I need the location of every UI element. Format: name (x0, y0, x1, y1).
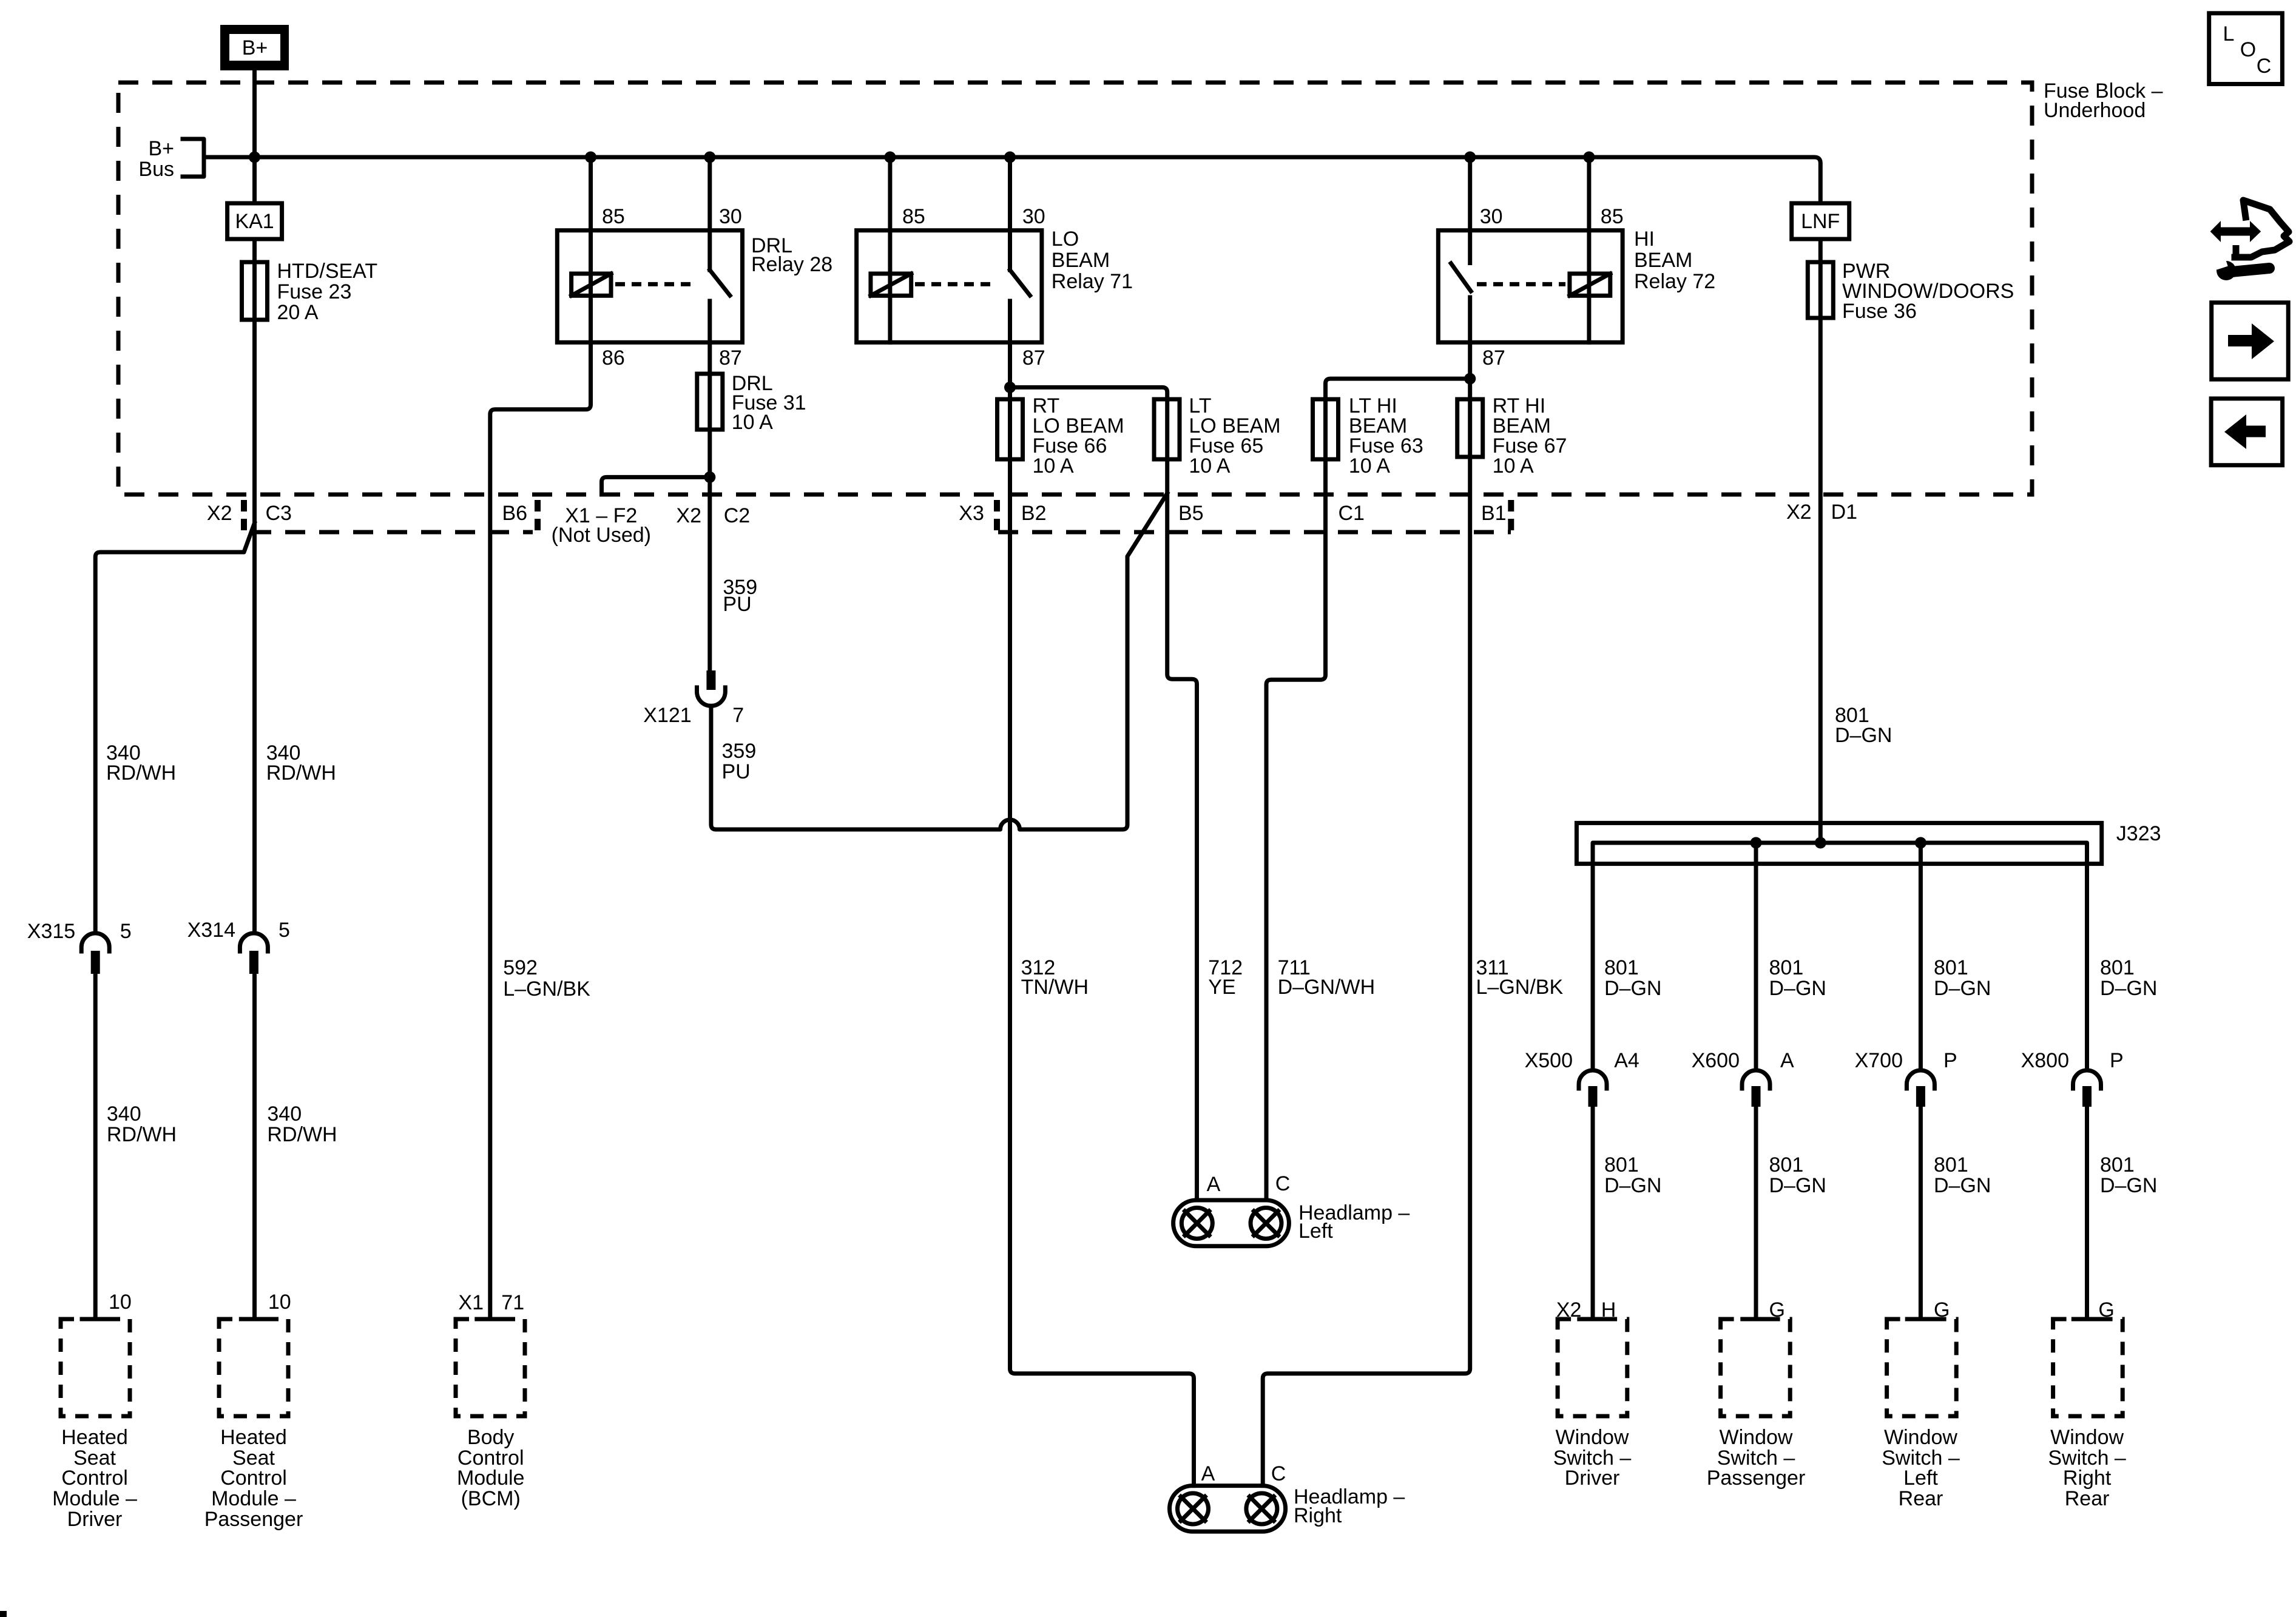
node relay72 output junction (1464, 373, 1476, 385)
label X2 D1 (1786, 501, 1857, 524)
svg-text:KA1: KA1 (235, 210, 274, 233)
label B5 (1178, 502, 1204, 525)
svg-text:B1: B1 (1481, 502, 1507, 525)
label fuse 67 (1493, 394, 1567, 478)
relay 71 LO BEAM box (857, 231, 1042, 343)
svg-text:Driver: Driver (1565, 1467, 1620, 1490)
svg-text:O: O (2240, 38, 2256, 61)
svg-text:RD/WH: RD/WH (107, 1123, 177, 1146)
wire B+ terminal to KA1 (252, 70, 257, 203)
relay 28 DRL box (557, 231, 742, 343)
svg-text:RD/WH: RD/WH (106, 761, 176, 785)
splice pack J323 inner bus (1593, 843, 2087, 864)
svg-text:X121: X121 (643, 704, 691, 727)
label window switch right rear (2048, 1426, 2126, 1510)
connector row dashed line segment A (251, 530, 533, 535)
wire branch to fuse 63 and headlamp left C (1266, 379, 1470, 1200)
label fuse 63 (1349, 394, 1423, 478)
label 359 PU lower (722, 740, 757, 783)
icon LOC box (2209, 13, 2283, 84)
svg-text:Control: Control (61, 1467, 128, 1490)
svg-text:D–GN: D–GN (1604, 977, 1661, 1000)
svg-text:C: C (1271, 1462, 1286, 1485)
module box heated seat passenger (219, 1319, 288, 1416)
label C1 (1339, 502, 1365, 525)
label fuse 66 (1033, 394, 1124, 478)
relay 28 pin 85 wire (585, 152, 596, 343)
svg-text:D–GN: D–GN (1769, 1174, 1826, 1197)
relay 72 pin 85 wire (1583, 152, 1595, 343)
svg-text:BEAM: BEAM (1052, 249, 1110, 272)
wire J323 to X800 (2085, 864, 2089, 1070)
svg-text:801: 801 (1934, 1153, 1968, 1176)
svg-text:PU: PU (722, 760, 751, 783)
svg-text:L–GN/BK: L–GN/BK (503, 977, 590, 1001)
wire J323 to X700 (1919, 843, 1923, 1070)
svg-text:B6: B6 (502, 502, 528, 525)
svg-text:Window: Window (1884, 1426, 1957, 1449)
svg-text:X2: X2 (207, 502, 232, 525)
svg-text:X315: X315 (27, 920, 75, 943)
svg-text:Right: Right (2063, 1467, 2112, 1490)
label 312 TN/WH (1021, 956, 1089, 999)
svg-text:RD/WH: RD/WH (266, 761, 336, 785)
svg-text:71: 71 (501, 1291, 524, 1314)
connector tick B1 (1508, 500, 1514, 533)
svg-text:Passenger: Passenger (1707, 1467, 1806, 1490)
module box window switch passenger (1721, 1319, 1791, 1416)
label B+ Bus (138, 137, 174, 181)
svg-text:801: 801 (2100, 956, 2135, 979)
label X2 C3 (207, 502, 292, 525)
headlamp right body (1170, 1486, 1286, 1532)
headlamp right high beam bulb (1246, 1493, 1277, 1524)
label fuse 65 (1189, 394, 1280, 478)
fuse 23 HTD/SEAT (242, 262, 268, 320)
svg-text:X1: X1 (458, 1291, 484, 1314)
svg-text:J323: J323 (2116, 822, 2161, 845)
svg-text:X2: X2 (676, 504, 701, 527)
connector tick X3 (994, 500, 1000, 533)
node relay71 output junction (1004, 382, 1016, 393)
svg-text:A: A (1780, 1049, 1794, 1072)
svg-text:801: 801 (1934, 956, 1968, 979)
pin label X1 71 (458, 1291, 524, 1314)
svg-text:801: 801 (1604, 956, 1639, 979)
svg-text:Rear: Rear (1899, 1487, 1943, 1510)
relay 28 pin labels (602, 205, 742, 370)
relay 72 coil (1570, 274, 1610, 295)
svg-text:30: 30 (1022, 205, 1045, 228)
label 801 D-GN upper 1 (1604, 956, 1661, 1000)
svg-text:Left: Left (1298, 1220, 1333, 1243)
headlamp left high beam bulb (1251, 1208, 1281, 1239)
svg-text:(BCM): (BCM) (461, 1487, 521, 1510)
relay 72 pin 30 wire and switch (1451, 152, 1476, 343)
svg-text:Underhood: Underhood (2044, 99, 2146, 122)
svg-text:X800: X800 (2021, 1049, 2069, 1072)
fuse 65 LT LO BEAM (1154, 399, 1180, 459)
svg-text:592: 592 (503, 956, 538, 979)
wire C3 branch to driver seat column (95, 523, 254, 933)
label X315 5 (27, 920, 132, 943)
relay 71 coil-switch dashed link (915, 282, 997, 286)
fuse block - underhood dashed outline (118, 83, 2032, 495)
wire J323 to X600 (1754, 843, 1758, 1070)
svg-text:85: 85 (602, 205, 625, 228)
svg-text:7: 7 (732, 704, 744, 727)
svg-text:87: 87 (719, 346, 742, 370)
relay 72 HI BEAM box (1438, 231, 1622, 343)
svg-text:B+: B+ (242, 36, 268, 59)
svg-text:801: 801 (2100, 1153, 2135, 1176)
svg-text:C2: C2 (724, 504, 750, 527)
svg-text:340: 340 (107, 1102, 141, 1126)
wire branch to X1-F2 (602, 477, 710, 495)
connector X700 (1906, 1070, 1934, 1107)
label 801 D-GN upper 2 (1769, 956, 1826, 1000)
label fuse 31 (732, 372, 806, 434)
icon arrow box left (2211, 399, 2283, 465)
label X2 C2 (676, 504, 750, 527)
svg-text:RD/WH: RD/WH (267, 1123, 337, 1146)
svg-text:D–GN: D–GN (1769, 977, 1826, 1000)
connector X121 (697, 670, 726, 706)
svg-text:A4: A4 (1614, 1049, 1639, 1072)
svg-text:359: 359 (722, 740, 757, 763)
svg-text:Module: Module (457, 1467, 525, 1490)
wire relay 28 pin 87 to fuse 31 and X121 (707, 342, 712, 672)
relay 71 pin 85 wire (884, 152, 896, 343)
label 801 D-GN branch 1 (1604, 1153, 1661, 1197)
label Headlamp - Right (1294, 1485, 1405, 1527)
fuse 63 LT HI BEAM (1313, 399, 1339, 459)
svg-text:X3: X3 (959, 502, 984, 525)
wire branch to fuse 65 and headlamp left A (1010, 387, 1197, 1200)
pin label 10 passenger (268, 1291, 291, 1314)
label 311 L-GN/BK (1476, 956, 1564, 999)
relay 28 coil-switch dashed link (615, 282, 697, 286)
connector X315 (81, 933, 109, 974)
svg-text:801: 801 (1604, 1153, 1639, 1176)
node fuse31 output junction (704, 471, 715, 483)
svg-text:Module –: Module – (52, 1487, 137, 1510)
svg-text:P: P (1943, 1049, 1957, 1072)
label 340 RD/WH driver lower (107, 1102, 177, 1146)
pin label G passenger (1769, 1298, 1785, 1322)
label fuse 36 (1842, 260, 2014, 323)
svg-text:Rear: Rear (2065, 1487, 2110, 1510)
svg-text:10 A: 10 A (1493, 454, 1534, 478)
label X600 A (1692, 1049, 1794, 1072)
svg-text:B5: B5 (1178, 502, 1204, 525)
svg-text:HI: HI (1634, 228, 1655, 251)
fuse 67 RT HI BEAM (1457, 399, 1483, 457)
relay 71 coil (871, 274, 911, 295)
headlamp right low beam bulb (1178, 1493, 1209, 1524)
pin label G left rear (1934, 1298, 1950, 1322)
node J323 taps (1751, 837, 1926, 849)
connector KA1 (228, 203, 282, 239)
label 340 RD/WH driver upper (106, 741, 176, 785)
label DRL Relay 28 (751, 234, 832, 276)
wire J323 to X500 (1591, 864, 1595, 1070)
svg-text:801: 801 (1769, 956, 1804, 979)
fuse 36 PWR WINDOW/DOORS (1808, 262, 1833, 318)
svg-text:Fuse 23: Fuse 23 (277, 280, 352, 303)
label 712 YE (1208, 956, 1243, 999)
label X700 P (1855, 1049, 1957, 1072)
relay 71 pin 30 wire and switch (1004, 152, 1030, 343)
wire LNF to fuse 36 and down to J323 (1818, 239, 1823, 843)
svg-text:HTD/SEAT: HTD/SEAT (277, 260, 378, 283)
page corner mark (0, 1611, 7, 1617)
connector X314 (240, 933, 268, 974)
svg-text:30: 30 (1480, 205, 1503, 228)
svg-text:30: 30 (719, 205, 742, 228)
label 340 RD/WH passenger upper (266, 741, 336, 785)
relay 71 pin labels (902, 205, 1045, 370)
svg-text:X500: X500 (1525, 1049, 1573, 1072)
svg-text:Module –: Module – (211, 1487, 296, 1510)
headlamp left low beam bulb (1181, 1208, 1212, 1239)
pin label X2 H (1556, 1298, 1616, 1322)
B+ bus bracket (183, 139, 204, 177)
svg-text:D–GN: D–GN (1835, 724, 1892, 747)
svg-text:B+: B+ (148, 137, 174, 160)
connector tick X2/C3 (241, 500, 247, 533)
svg-text:X600: X600 (1692, 1049, 1740, 1072)
label window switch driver (1553, 1426, 1632, 1490)
svg-text:Right: Right (1294, 1504, 1342, 1527)
svg-text:Bus: Bus (138, 158, 174, 181)
label body control module (457, 1426, 525, 1510)
svg-text:340: 340 (267, 1102, 302, 1126)
svg-text:D–GN: D–GN (2100, 977, 2157, 1000)
svg-text:(Not Used): (Not Used) (552, 524, 651, 547)
fuse 31 DRL (697, 374, 723, 430)
svg-text:Heated: Heated (220, 1426, 287, 1449)
icon wrench (2215, 258, 2269, 280)
svg-text:87: 87 (1022, 346, 1045, 370)
svg-text:Passenger: Passenger (204, 1508, 303, 1531)
svg-text:A: A (1207, 1173, 1221, 1196)
svg-text:Driver: Driver (67, 1508, 123, 1531)
svg-text:D–GN: D–GN (2100, 1174, 2157, 1197)
svg-text:Relay 72: Relay 72 (1634, 270, 1715, 293)
svg-text:PU: PU (723, 593, 751, 616)
svg-text:Body: Body (467, 1426, 515, 1449)
module box heated seat driver (61, 1319, 130, 1416)
label HI BEAM Relay 72 (1634, 228, 1715, 293)
label 801 D-GN upper 3 (1934, 956, 1991, 1000)
connector X500 (1579, 1070, 1607, 1107)
label X121 7 (643, 704, 744, 727)
svg-text:L–GN/BK: L–GN/BK (1476, 976, 1564, 999)
icon adjust hand double arrow (2210, 221, 2261, 242)
wire B+ bus (204, 157, 1820, 203)
wire relay 72 pin 87 down to fuse 67 and to headlamp right C (1263, 342, 1470, 1485)
svg-text:Heated: Heated (61, 1426, 128, 1449)
connector X600 (1742, 1070, 1770, 1107)
svg-text:D–GN: D–GN (1934, 977, 1991, 1000)
label X3 B2 (959, 502, 1046, 525)
connector row dashed line segment B (998, 530, 1511, 535)
label window switch left rear (1882, 1426, 1960, 1510)
relay 72 coil-switch dashed link (1477, 282, 1565, 286)
wire relay 28 pin 86 to B6/BCM (490, 342, 591, 1319)
label 801 D-GN upper 4 (2100, 956, 2157, 1000)
module box BCM (456, 1319, 525, 1416)
B+ power terminal (220, 25, 289, 70)
svg-text:Control: Control (220, 1467, 287, 1490)
wire X315 to heated seat driver (93, 974, 98, 1319)
label heated seat control module driver (52, 1426, 137, 1531)
svg-text:87: 87 (1482, 346, 1505, 370)
svg-text:Window: Window (1720, 1426, 1793, 1449)
pin label 10 driver (109, 1291, 132, 1314)
headlamp left pin labels (1207, 1172, 1291, 1196)
svg-text:P: P (2110, 1049, 2124, 1072)
label X500 A4 (1525, 1049, 1639, 1072)
module box window switch driver (1558, 1319, 1627, 1416)
label 801 D-GN branch 3 (1934, 1153, 1991, 1197)
svg-text:10 A: 10 A (1033, 454, 1074, 478)
svg-text:C: C (2257, 55, 2272, 78)
svg-text:D–GN: D–GN (1934, 1174, 1991, 1197)
label Headlamp - Left (1298, 1201, 1410, 1243)
wire relay 71 pin 87 down to fuse 66 and to headlamp right A (1010, 342, 1194, 1485)
svg-text:C3: C3 (266, 502, 292, 525)
svg-text:Relay 71: Relay 71 (1052, 270, 1133, 293)
svg-text:X314: X314 (187, 919, 235, 942)
label 801 D-GN branch 4 (2100, 1153, 2157, 1197)
svg-text:L: L (2223, 22, 2235, 46)
label J323 (2116, 822, 2161, 845)
svg-text:C1: C1 (1339, 502, 1365, 525)
svg-text:X2: X2 (1786, 501, 1812, 524)
wire X600 to window switch passenger (1754, 1107, 1758, 1319)
label B1 (1481, 502, 1507, 525)
svg-text:5: 5 (279, 919, 290, 942)
icon adjust hand outline (2235, 200, 2289, 257)
connector LNF (1792, 203, 1849, 239)
svg-text:YE: YE (1208, 976, 1235, 999)
svg-text:Window: Window (2050, 1426, 2124, 1449)
label 711 D-GN/WH (1278, 956, 1376, 999)
relay 28 pin 30 wire and switch (704, 152, 730, 343)
node B+ tap (249, 152, 260, 163)
label B6 (502, 502, 528, 525)
relay 28 coil (572, 274, 611, 295)
svg-text:X700: X700 (1855, 1049, 1903, 1072)
label 359 PU upper (723, 576, 757, 616)
svg-text:TN/WH: TN/WH (1021, 976, 1089, 999)
splice pack J323 outer (1576, 823, 2101, 863)
svg-text:LNF: LNF (1801, 210, 1840, 233)
svg-text:86: 86 (602, 346, 625, 370)
svg-text:BEAM: BEAM (1634, 249, 1692, 272)
label X314 5 (187, 919, 290, 942)
wire X800 to window switch right rear (2085, 1107, 2089, 1319)
svg-text:5: 5 (120, 920, 132, 943)
label 340 RD/WH passenger lower (267, 1102, 337, 1146)
label LO BEAM Relay 71 (1052, 228, 1133, 293)
svg-text:Relay 28: Relay 28 (751, 253, 832, 276)
svg-text:10 A: 10 A (732, 411, 773, 434)
svg-text:10: 10 (109, 1291, 132, 1314)
headlamp right pin labels (1201, 1462, 1286, 1485)
wire X700 to window switch left rear (1919, 1107, 1923, 1319)
svg-text:10 A: 10 A (1189, 454, 1230, 478)
label Fuse Block - Underhood (2044, 79, 2163, 122)
label window switch passenger (1707, 1426, 1806, 1490)
svg-text:801: 801 (1769, 1153, 1804, 1176)
svg-text:B2: B2 (1021, 502, 1047, 525)
label 801 D-GN branch 2 (1769, 1153, 1826, 1197)
wire X314 to heated seat passenger (252, 974, 257, 1319)
label 801 D-GN feed (1835, 704, 1892, 747)
pin label G right rear (2098, 1298, 2114, 1322)
wire KA1 to C3 (252, 239, 257, 931)
svg-text:20 A: 20 A (277, 301, 319, 324)
fuse 66 RT LO BEAM (998, 399, 1023, 459)
module box window switch right rear (2053, 1319, 2123, 1416)
svg-text:85: 85 (1601, 205, 1624, 228)
headlamp left body (1173, 1200, 1289, 1246)
wire 359 PU from X121 to B5 branch (with hop) (711, 493, 1167, 829)
icon arrow box right (2212, 303, 2289, 380)
label fuse 23 (277, 260, 378, 324)
connector X800 (2073, 1070, 2101, 1107)
svg-text:Fuse 36: Fuse 36 (1842, 300, 1917, 323)
label heated seat control module passenger (204, 1426, 303, 1531)
svg-text:C: C (1275, 1172, 1291, 1195)
connector tick B6 (535, 500, 541, 533)
label 592 L-GN/BK (503, 956, 590, 1001)
svg-text:D1: D1 (1831, 501, 1857, 524)
wire X500 to window switch driver (1591, 1107, 1595, 1319)
svg-text:Left: Left (1903, 1467, 1938, 1490)
svg-text:LO: LO (1052, 228, 1079, 251)
relay 72 pin labels (1480, 205, 1624, 370)
module box window switch left rear (1887, 1319, 1957, 1416)
svg-text:Window: Window (1556, 1426, 1629, 1449)
svg-text:10: 10 (268, 1291, 291, 1314)
svg-text:85: 85 (902, 205, 925, 228)
svg-text:A: A (1201, 1462, 1215, 1485)
svg-text:D–GN/WH: D–GN/WH (1278, 976, 1376, 999)
label X800 P (2021, 1049, 2124, 1072)
svg-text:D–GN: D–GN (1604, 1174, 1661, 1197)
svg-text:10 A: 10 A (1349, 454, 1390, 478)
label X1 - F2 (Not Used) (552, 504, 651, 547)
